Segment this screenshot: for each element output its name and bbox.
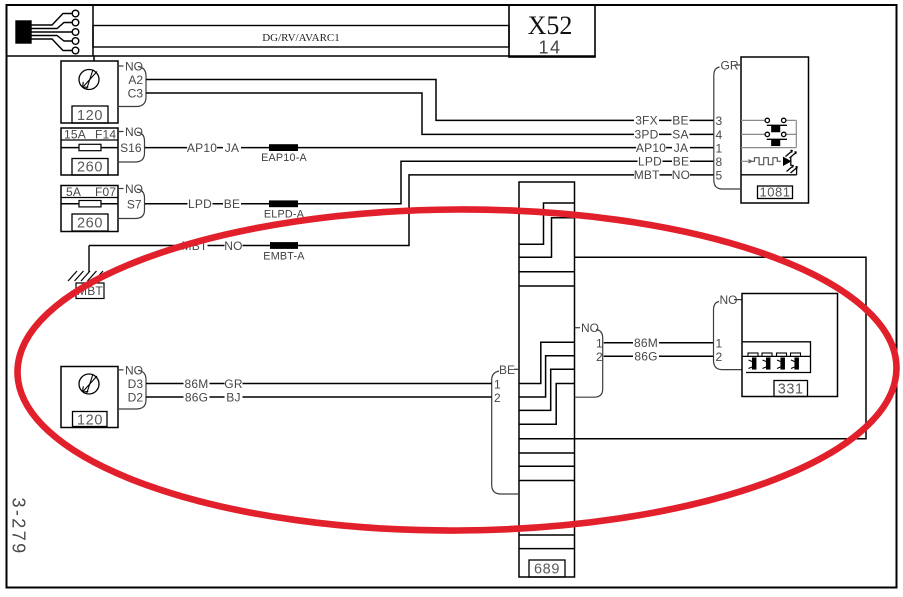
svg-text:S7: S7 [127,197,142,211]
header divider lines [7,5,596,56]
svg-text:GR: GR [721,59,739,73]
svg-text:2: 2 [494,391,501,405]
label 86M GR [184,378,210,389]
svg-text:5A: 5A [66,185,81,199]
svg-text:689: 689 [534,562,560,578]
ground MBT [68,246,104,299]
svg-text:86M: 86M [634,336,658,350]
svg-text:C3: C3 [128,87,144,101]
svg-text:AP10: AP10 [187,141,217,155]
splice ELPD-A [269,200,298,207]
svg-text:NO: NO [125,125,143,139]
svg-text:BJ: BJ [226,390,240,404]
component 1081 [741,57,809,203]
svg-text:8: 8 [716,155,723,169]
svg-text:F14: F14 [95,128,116,142]
svg-text:BE: BE [224,197,240,211]
svg-text:MBT: MBT [634,168,660,182]
svg-text:260: 260 [77,216,103,232]
svg-text:3PD: 3PD [635,128,659,142]
wire loop around 331 [519,257,866,439]
wire 86G BJ (D2 to BE pin2) [146,396,492,398]
label AP10 JA (right) [636,142,666,153]
label AP10 JA (left) [187,142,217,153]
bracket NO right of 689 [575,328,603,398]
svg-text:LPD: LPD [638,155,662,169]
svg-text:1: 1 [716,336,723,350]
label 3PD SA (row pin4) [634,129,659,140]
bracket S7 [118,189,145,219]
svg-text:260: 260 [77,160,103,176]
connector bracket NO A2 C3 [118,66,146,107]
svg-text:NO: NO [581,321,599,335]
svg-text:AP10: AP10 [636,141,666,155]
bracket BE pins 1 2 [492,369,519,494]
label 86G (right pair) [633,351,659,362]
component 331 [742,294,838,397]
svg-text:DG/RV/AVARC1: DG/RV/AVARC1 [262,32,340,44]
svg-text:NO: NO [125,363,143,377]
svg-text:2: 2 [596,350,603,364]
svg-text:1: 1 [494,378,501,392]
wire LPD to 1081 pin 8 [145,161,714,204]
svg-text:1081: 1081 [760,185,791,200]
svg-text:120: 120 [77,108,103,124]
svg-text:X52: X52 [528,11,573,40]
label LPD BE (right) [638,156,663,167]
svg-text:BE: BE [673,155,689,169]
splice EAP10-A [269,144,298,151]
svg-text:NO: NO [720,293,738,307]
wire labels with white background [182,114,691,405]
svg-text:GR: GR [224,377,243,391]
svg-text:BE: BE [499,363,515,377]
svg-text:120: 120 [77,413,103,429]
svg-text:LPD: LPD [188,197,212,211]
svg-text:5: 5 [716,169,723,183]
svg-text:331: 331 [778,382,804,398]
wire 86M GR (D3 to BE pin1) [146,383,492,385]
331 internal actuator symbols [748,353,801,369]
svg-text:A2: A2 [128,73,143,87]
component 689 junction box [519,182,575,577]
svg-text:NO: NO [672,168,690,182]
svg-text:86G: 86G [634,350,657,364]
svg-text:15A: 15A [64,128,86,142]
label MBT NO (right) [634,169,660,180]
svg-text:3FX: 3FX [635,114,658,128]
svg-text:1: 1 [716,141,723,155]
svg-text:EMBT-A: EMBT-A [263,251,305,263]
svg-text:JA: JA [225,141,239,155]
svg-text:BE: BE [672,114,688,128]
component 120 (top) [61,56,118,123]
wire AP10 to 1081 pin 1 [145,147,714,149]
svg-text:NO: NO [224,239,242,253]
svg-text:14: 14 [538,38,561,58]
svg-text:F07: F07 [95,185,116,199]
label MBT NO (left) [182,240,208,251]
bracket S16 [118,132,145,163]
svg-text:D3: D3 [128,377,144,391]
wire 86M (689 to 331 pin1) [604,342,714,344]
label 86M (right pair) [633,337,659,348]
wire C3 to 1081 pin 4 [146,93,714,134]
svg-text:SA: SA [672,128,688,142]
bracket GR pins 3 4 1 8 5 [714,65,741,189]
svg-text:86M: 86M [185,377,209,391]
wire MBT to 1081 pin 5 [89,175,714,246]
red highlight ellipse [17,207,898,533]
header box X52 / 14 [509,5,595,58]
bracket NO D3 D2 [118,370,146,409]
wire 86G (689 to 331 pin2) [604,355,714,357]
svg-text:2: 2 [716,350,723,364]
wire A2 to 1081 pin 3 [146,80,714,121]
fuse F14 (15A, 260) [61,128,118,175]
fuse F07 (5A, 260) [61,186,118,232]
component 120 (bottom) [61,367,118,428]
svg-text:S16: S16 [120,141,142,155]
harness connector icon [16,10,79,54]
svg-text:JA: JA [674,141,688,155]
svg-text:NO: NO [125,182,143,196]
1081 internal switch + timer + LED [741,120,796,161]
label 86G BJ [184,392,210,403]
label LPD BE (left) [188,198,213,209]
svg-text:NO: NO [125,59,143,73]
svg-text:EAP10-A: EAP10-A [261,152,307,164]
svg-text:3-279: 3-279 [9,498,29,556]
label 3FX BE (row pin3) [634,115,659,126]
svg-text:D2: D2 [128,391,144,405]
splice EMBT-A [270,242,298,249]
svg-text:3: 3 [716,114,723,128]
svg-text:86G: 86G [185,390,208,404]
svg-text:1: 1 [596,336,603,350]
header label DG/RV/AVARC1 [93,26,509,48]
svg-text:4: 4 [716,128,723,142]
bracket NO left of 331 [714,300,743,370]
